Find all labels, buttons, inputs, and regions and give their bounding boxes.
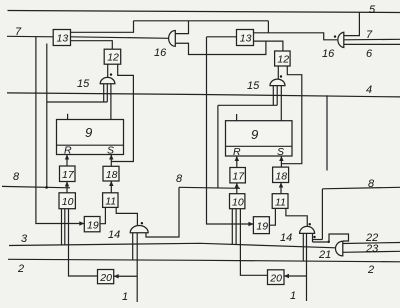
wire vertical A from line7 down to gate19 feed: [36, 37, 84, 224]
svg-text:R: R: [64, 145, 72, 157]
gate 15 left: [100, 77, 115, 83]
block 18 right: [273, 167, 289, 182]
svg-text:14: 14: [108, 229, 120, 241]
block 12 right: [275, 51, 291, 66]
svg-text:S: S: [277, 146, 284, 158]
wire arrow block10R to block17R: [236, 183, 238, 194]
wire box9L top stub: [67, 114, 69, 120]
wire box11L pin to gate14L apex: [116, 207, 137, 226]
wire box9R top stub: [236, 114, 238, 121]
block 20 left: [98, 270, 114, 284]
svg-text:18: 18: [275, 170, 287, 182]
wire box11L pin to block19L: [100, 207, 105, 223]
wire box10L pins down to rail 3: [61, 209, 63, 245]
gate 16 right: [338, 32, 344, 47]
wire branch into block 20 right: [284, 275, 307, 277]
svg-text:8: 8: [368, 178, 375, 190]
wire box13R mid output into block 12 right: [254, 41, 283, 51]
node dot at gate16R input: [334, 35, 336, 37]
node dot above gate14 right: [309, 223, 311, 225]
svg-text:18: 18: [106, 169, 118, 181]
wire gate14L output to rail8 mid: [146, 187, 179, 237]
svg-text:8: 8: [176, 173, 183, 185]
svg-text:9: 9: [85, 125, 92, 140]
wire gate15L pins down to branch: [103, 84, 105, 102]
wire output 7 right: [344, 38, 400, 41]
svg-text:15: 15: [77, 78, 90, 90]
wire box11R pin to gate14R apex: [286, 208, 307, 227]
wire output 23: [343, 251, 400, 252]
svg-text:20: 20: [269, 272, 282, 284]
wire rail 3: [9, 243, 336, 248]
svg-text:19: 19: [87, 219, 99, 231]
wire gate15R pins down to branch: [272, 86, 274, 106]
wire vertical A2 down to gate19R feed: [207, 37, 254, 224]
wire box13L low output into block 12 left: [71, 41, 113, 50]
wire gate14R pin to rail 2: [302, 233, 304, 260]
wire box10R pin down to block20R: [240, 209, 267, 276]
svg-text:7: 7: [366, 29, 373, 41]
wire box10R pins down to rail 3: [231, 209, 233, 245]
wire arrow block11R to block18R: [280, 183, 282, 194]
block 17 right: [230, 168, 246, 183]
gate 16 left: [169, 31, 176, 47]
wire gate15R right pin into block 9 right: [280, 86, 282, 121]
svg-text:1: 1: [290, 290, 296, 302]
svg-text:2: 2: [367, 264, 374, 276]
block 11 left: [103, 193, 118, 208]
wire gate14R output staircase: [312, 233, 314, 242]
node dot above gate14 left: [141, 222, 143, 224]
gate 15 right: [270, 79, 285, 85]
node dot under box12 left: [110, 73, 112, 75]
wire vertical B from under box13 to rail8: [46, 44, 48, 188]
svg-text:9: 9: [251, 127, 258, 142]
wire staircase to gate 21: [313, 234, 349, 242]
block 12 left: [104, 49, 121, 64]
svg-text:20: 20: [99, 272, 112, 284]
wire junction riser to top rail: [267, 21, 269, 33]
gate 14 right: [300, 226, 315, 233]
wire branch under gate 15 left: [47, 101, 108, 103]
wire box10L pin down to block20L: [69, 209, 98, 276]
wire arrow block10L to block17L: [66, 182, 68, 193]
wire rail 8 left: [2, 186, 70, 187]
svg-text:17: 17: [62, 169, 75, 181]
svg-text:13: 13: [57, 33, 69, 45]
wire arrow block17L to R input: [66, 155, 68, 167]
wire box13L mid output to gate16 left: [71, 37, 169, 39]
wire arrow block18R to S input: [280, 156, 282, 167]
wire arrow block18L to S input: [110, 155, 112, 167]
arrowhead into block 19 left: [79, 221, 84, 225]
block 19 left: [84, 217, 100, 232]
svg-text:11: 11: [105, 195, 116, 207]
svg-text:23: 23: [365, 243, 379, 255]
gate 21: [335, 241, 342, 256]
wire box12R right pin over to S junction right: [281, 66, 301, 164]
node dot under box12 right: [280, 75, 282, 77]
block 17 left: [60, 166, 76, 182]
wire output 22: [343, 243, 400, 244]
block 9 left (RS trigger): [57, 120, 124, 155]
wire gate14L pin to rail 2: [132, 233, 134, 260]
wire box12R pin to gate15R apex: [277, 66, 279, 79]
wire top link rail y21: [134, 20, 269, 22]
svg-text:16: 16: [322, 48, 335, 60]
wire box12L pin to gate15L apex: [107, 64, 109, 77]
wire branch under gate 15 right: [218, 104, 277, 106]
svg-text:10: 10: [232, 197, 244, 209]
wire box13R top output to gate16 right: [254, 33, 338, 40]
block 9 right (RS trigger): [226, 121, 293, 156]
block 11 right: [272, 194, 288, 209]
node dot gate14R output: [313, 236, 315, 238]
svg-text:7: 7: [15, 26, 22, 38]
wire arrow block11L to block18L: [110, 181, 112, 193]
wire gate15L right pin into block 9: [110, 84, 112, 120]
gate 14 left: [130, 226, 148, 233]
wire box12L right pin over to S junction left: [112, 64, 134, 161]
block 13 right: [237, 30, 254, 46]
svg-text:1: 1: [122, 291, 128, 303]
svg-text:16: 16: [154, 47, 167, 59]
wire gate16R top pin up to rail 5: [344, 12, 360, 35]
svg-text:12: 12: [277, 54, 289, 66]
node dot staircase corner: [328, 241, 330, 243]
block 18 left: [103, 166, 119, 181]
svg-text:4: 4: [366, 84, 372, 96]
svg-text:13: 13: [240, 33, 252, 45]
svg-text:21: 21: [318, 249, 331, 261]
svg-text:6: 6: [366, 48, 373, 60]
block 20 right: [268, 270, 285, 285]
wire rail 8 right: [322, 187, 400, 189]
wire gate16L bottom pin to box13R bottom tee: [175, 41, 266, 54]
svg-text:14: 14: [280, 232, 292, 244]
svg-text:12: 12: [107, 52, 119, 64]
svg-text:10: 10: [62, 196, 74, 208]
svg-text:2: 2: [17, 263, 24, 275]
block 13 left: [53, 30, 70, 46]
svg-text:17: 17: [232, 170, 245, 182]
svg-text:8: 8: [13, 171, 20, 183]
wire rail 8 middle: [179, 187, 240, 188]
block 19 right: [253, 217, 269, 234]
wire rail 4: [7, 93, 400, 97]
wire branch into block 20 left: [114, 275, 138, 277]
wire box11R pin to block19R: [269, 208, 275, 225]
wire output 6 right: [344, 43, 400, 45]
svg-text:S: S: [107, 145, 114, 157]
wire gate14R pin down to input 1 right: [306, 233, 308, 301]
svg-text:11: 11: [275, 196, 286, 208]
wire rail8R corner down to gate21 net: [321, 189, 323, 240]
block 10 right: [230, 194, 245, 209]
wire gate14L pin down to input 1: [136, 233, 138, 302]
wire box13L top output step up to rail 21: [71, 21, 134, 33]
wire vertical B2 to rail8 mid: [217, 105, 219, 188]
svg-text:15: 15: [247, 80, 260, 92]
arrowhead into block 19 right: [248, 222, 253, 226]
wire rail 2: [8, 259, 400, 262]
wire gate16L top pin up to rail21: [175, 21, 188, 34]
wire box13R input: [207, 36, 237, 38]
svg-text:3: 3: [21, 233, 28, 245]
node dot on rail 8: [45, 186, 48, 189]
wire arrow block17R to R input: [236, 156, 238, 168]
block 10 left: [59, 193, 75, 209]
wire bus 5 top rail: [8, 11, 400, 13]
wire input 7 left: [7, 35, 53, 38]
svg-text:19: 19: [256, 220, 268, 232]
svg-text:5: 5: [369, 4, 376, 16]
wire riser rail4 to rail8 right (upper part): [326, 95, 328, 170]
